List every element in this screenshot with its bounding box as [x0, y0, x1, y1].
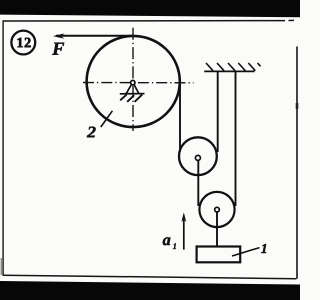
scan speck on right frame line	[296, 103, 299, 109]
lower pulley	[199, 192, 234, 227]
pivot support triangle	[126, 84, 139, 93]
acceleration arrow a1 head	[181, 212, 186, 222]
pivot pin circle at wheel center	[131, 80, 135, 84]
label a1	[163, 237, 171, 245]
rope from wheel down to upper pulley	[179, 82, 181, 152]
lower pulley axle	[215, 207, 220, 212]
wheel horizontal centerline	[83, 82, 194, 84]
frame top line	[3, 19, 294, 22]
pivot ground line	[120, 93, 145, 95]
frame bottom line	[3, 275, 297, 279]
pointer line for label 1	[232, 248, 260, 256]
scan black bar top	[0, 0, 300, 17]
scan speck left margin	[1, 258, 2, 275]
rope from upper axle down to lower pulley	[197, 160, 199, 206]
ceiling hatches	[206, 63, 261, 71]
label 1	[261, 244, 266, 253]
frame right line	[296, 47, 298, 279]
scan black bar bottom	[0, 281, 300, 300]
upper pulley axle	[195, 155, 200, 160]
pointer line for label 2	[101, 111, 113, 127]
rope from upper pulley up to ceiling	[217, 71, 219, 152]
label F	[52, 43, 64, 55]
rope from lower pulley up to ceiling	[235, 71, 237, 206]
force arrow F line	[56, 35, 131, 37]
block 1	[197, 247, 241, 263]
acceleration arrow a1 line	[183, 216, 185, 250]
problem number text 12	[18, 38, 31, 47]
problem number badge circle (12)	[11, 31, 35, 55]
force arrow F head	[53, 33, 65, 38]
label 2	[87, 127, 96, 138]
pivot ground hatches	[120, 95, 142, 102]
rope from lower axle down to block	[216, 212, 218, 246]
frame left line	[2, 21, 4, 275]
ceiling line	[204, 70, 254, 72]
wheel vertical centerline	[132, 28, 134, 131]
upper pulley	[179, 137, 217, 175]
wheel 2 rim	[87, 36, 180, 127]
